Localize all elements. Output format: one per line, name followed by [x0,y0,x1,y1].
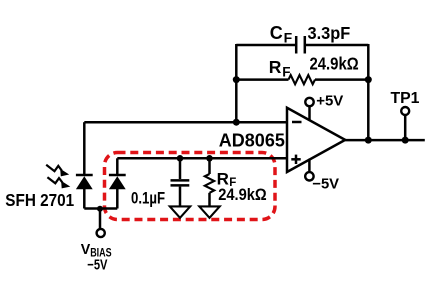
node: cap tap [177,155,184,162]
svg-text:C: C [270,23,283,43]
diode D2 (parasitic) [109,158,126,208]
svg-text:0.1µF: 0.1µF [131,189,165,208]
label 0.1uF [131,189,165,208]
label SFH 2701 [5,191,74,210]
resistor RF (shunt) [205,158,214,206]
label -5V [312,177,339,193]
svg-text:SFH 2701: SFH 2701 [5,191,74,210]
svg-text:AD8065: AD8065 [219,131,285,151]
node: bias junction [97,206,103,212]
svg-text:F: F [284,30,293,46]
terminal VBIAS [97,229,105,237]
wire: RF branch left segment [236,78,288,81]
label VBIAS [81,242,91,258]
wire: CF top branch right segment [306,44,368,47]
node: feedback right at RF [365,76,372,83]
op-amp minus sign [292,121,302,124]
value 3.3pF [308,22,351,43]
wire: feedback left vertical [235,44,238,122]
ground (cap) [170,206,190,217]
terminal TP1 [401,107,409,115]
wire: TP1 stub [404,115,407,140]
svg-text:TP1: TP1 [391,90,420,107]
-5V terminal [305,172,313,180]
svg-text:24.9kΩ: 24.9kΩ [310,54,359,73]
wire: output [345,139,425,142]
capacitor 0.1uF [171,158,190,206]
svg-text:F: F [282,64,290,79]
red dashed enclosure (parasitic network highlight) [105,153,276,220]
light arrow 1 [46,165,69,177]
ground (resistor) [199,206,219,217]
wire: noninverting input rail [117,157,287,160]
label AD8065 [219,131,285,151]
svg-text:3.3pF: 3.3pF [308,22,351,43]
label -5V (bias) [87,256,107,273]
svg-text:24.9kΩ: 24.9kΩ [218,186,266,204]
value 24.9k ohm [310,54,359,73]
svg-text:+5V: +5V [316,93,343,110]
op-amp U1 AD8065 [287,108,345,172]
svg-text:−5V: −5V [312,177,339,193]
wire: bottom bias rail [84,207,117,210]
label TP1 [391,90,420,107]
value 24.9k ohm (shunt) [218,186,266,204]
photodiode D1 SFH 2701 [76,175,93,189]
node: summing junction [233,119,240,126]
label +5V [316,93,343,110]
wire: photodiode cathode vertical [83,122,86,174]
resistor RF (feedback) [289,75,315,84]
wire: CF top branch left segment [236,44,295,47]
op-amp plus sign [291,155,300,164]
wire: RF branch right segment [315,78,368,81]
wire: to VBIAS terminal [99,209,102,229]
+5V terminal [305,98,313,106]
+5V supply stub [308,107,311,122]
svg-text:−5V: −5V [87,256,107,273]
wire: photodiode anode down [83,189,86,209]
node: resistor tap [206,155,213,162]
svg-text:R: R [269,57,282,77]
capacitor CF [296,36,305,54]
node: TP1 tap [402,137,409,144]
node: feedback takeoff [365,137,372,144]
wire: inverting input from photodiode [84,121,287,124]
node: feedback left at RF [233,76,240,83]
wire: feedback right vertical [367,44,370,140]
light arrow 2 [47,177,70,188]
-5V supply stub [308,159,311,172]
